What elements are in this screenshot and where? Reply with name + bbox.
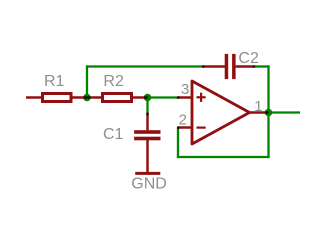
wire blend C2 right lead (253, 65, 256, 67)
wire node B to op-amp +input (148, 96, 178, 98)
wire blend C2 left lead (202, 65, 205, 67)
resistor R1 (26, 94, 87, 102)
svg-text:C2: C2 (238, 50, 259, 67)
svg-text:R1: R1 (44, 73, 65, 90)
wire blend C1 top lead (146, 113, 148, 116)
svg-text:1: 1 (254, 98, 262, 115)
svg-text:2: 2 (179, 112, 187, 129)
svg-text:GND: GND (131, 176, 167, 193)
wire feedback loop output down, left, up to -input (177, 113, 270, 159)
wire blend op-amp +input lead (177, 96, 180, 98)
ground (135, 172, 160, 175)
capacitor C2 (203, 54, 254, 79)
capacitor C1 (134, 114, 160, 173)
node B junction dot (144, 94, 152, 102)
svg-text:R2: R2 (103, 73, 124, 90)
wire net IN+ top feedback (junction A up and across to C2) (86, 65, 203, 97)
wire node B down to C1 (146, 98, 148, 115)
wire output to right edge (269, 111, 301, 113)
wire from C2 down to output node (254, 65, 270, 112)
svg-text:C1: C1 (103, 126, 124, 143)
op-amp U1 (178, 81, 269, 144)
resistor R2 (87, 94, 148, 102)
node OUT junction dot (265, 109, 273, 117)
svg-text:3: 3 (181, 81, 189, 98)
junction blend at -input corner (177, 127, 179, 129)
node A junction dot (83, 94, 91, 102)
